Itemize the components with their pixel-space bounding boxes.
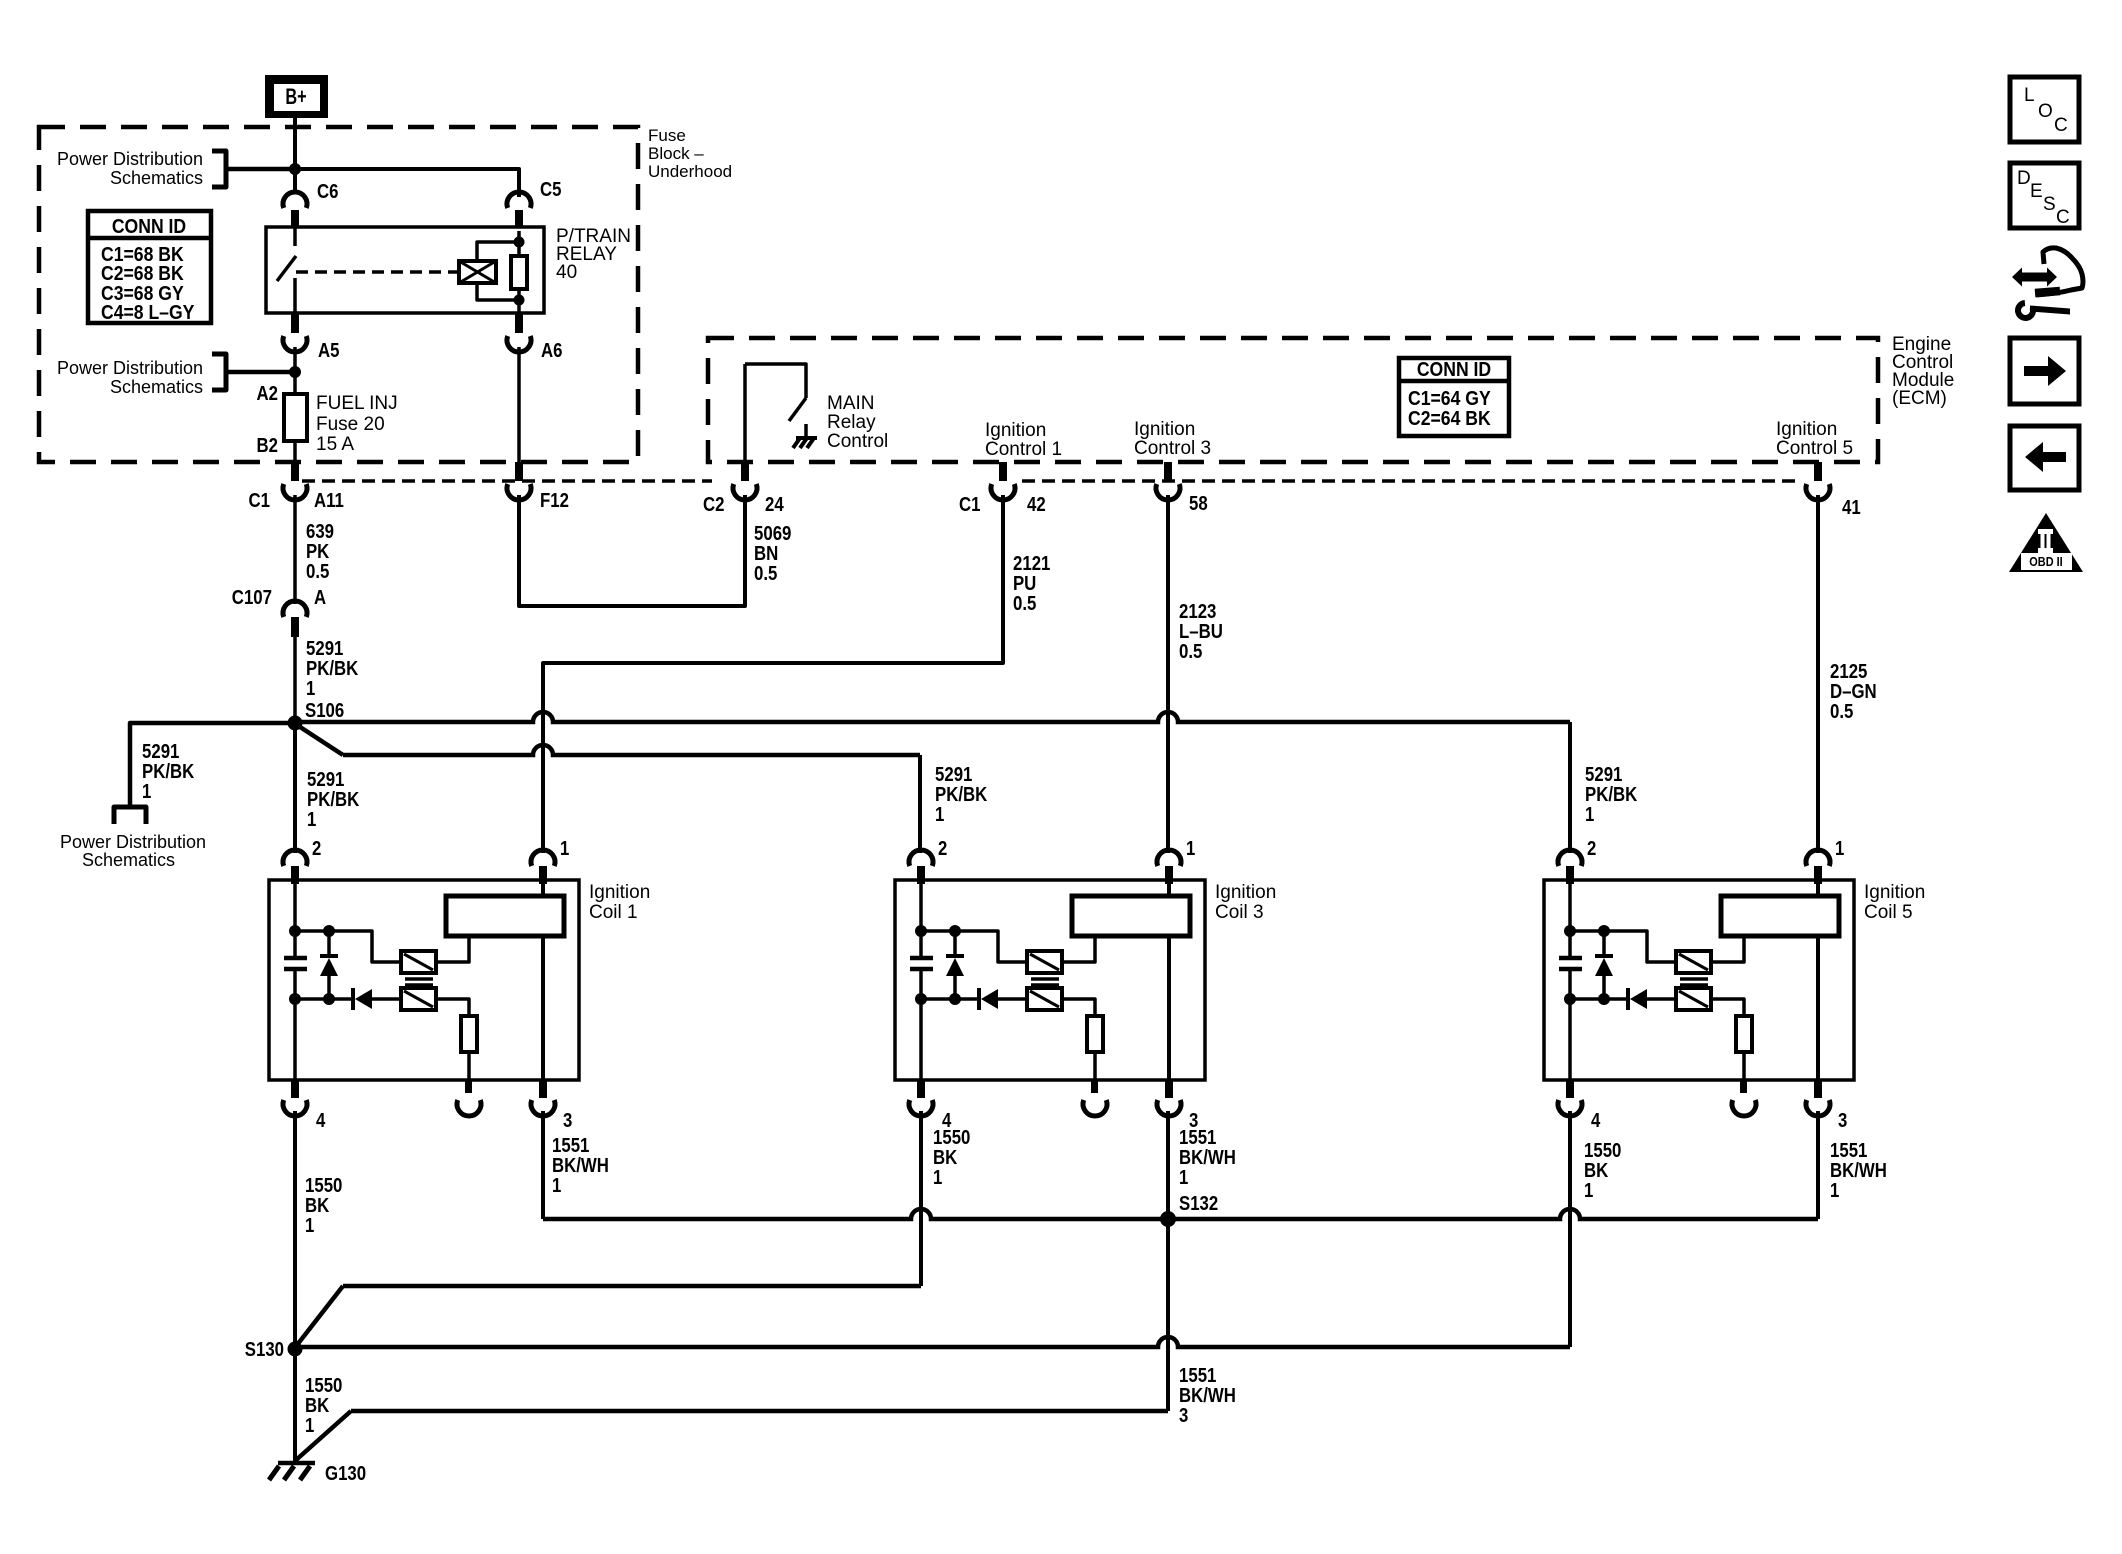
CONN ID table fuse block (88, 211, 211, 324)
wire S106 to coil1 pin2 (293, 730, 297, 853)
svg-text:1550: 1550 (933, 1127, 970, 1149)
svg-text:B+: B+ (285, 84, 306, 109)
coil 3 pin2 internal wire (919, 884, 923, 1080)
svg-text:B2: B2 (257, 435, 279, 457)
reference Power Distribution Schematics (top) (57, 149, 226, 188)
engine control module dashed box (708, 338, 1878, 462)
svg-text:BK: BK (933, 1147, 958, 1169)
svg-text:D: D (2017, 168, 2031, 189)
coil 3 pin 2 connector (909, 838, 947, 884)
svg-text:Coil 1: Coil 1 (589, 902, 638, 923)
label 5291 PK/BK 1 (coil5) (1585, 764, 1638, 826)
svg-text:C107: C107 (232, 587, 272, 609)
coil 3 resistor to secondary tower (1093, 1052, 1097, 1080)
svg-text:C2=64 BK: C2=64 BK (1408, 408, 1491, 430)
coil 5 secondary output connector (1732, 1080, 1756, 1116)
ignition coil 5 box (1544, 880, 1854, 1080)
reference bracket Power Distribution Schematics (bottom) (60, 807, 206, 870)
svg-text:2123: 2123 (1179, 601, 1216, 623)
CONN ID table ECM (1399, 358, 1509, 436)
svg-text:PU: PU (1013, 573, 1036, 595)
svg-text:0.5: 0.5 (1830, 701, 1853, 723)
label Ignition Control 1 (985, 420, 1062, 460)
svg-text:1550: 1550 (305, 1375, 342, 1397)
svg-text:PK: PK (306, 541, 330, 563)
fuse block underhood dashed box (39, 127, 638, 462)
svg-text:S106: S106 (305, 700, 344, 722)
icon wrench with hose (2012, 248, 2083, 318)
svg-text:C2: C2 (703, 494, 725, 516)
svg-text:3: 3 (563, 1110, 572, 1132)
label 5291 PK/BK 1 (coil3) (935, 764, 988, 826)
coil 1 resistor to secondary tower (467, 1052, 471, 1080)
svg-text:40: 40 (556, 262, 577, 283)
label Ignition Coil 5 (1864, 882, 1925, 923)
svg-text:15 A: 15 A (316, 434, 354, 455)
svg-text:C6: C6 (317, 181, 339, 203)
svg-text:D–GN: D–GN (1830, 681, 1877, 703)
connector C6 (283, 181, 339, 231)
svg-text:L: L (2024, 85, 2035, 106)
svg-text:Power Distribution: Power Distribution (60, 832, 206, 852)
svg-text:3: 3 (1179, 1405, 1188, 1427)
relay actuation dashed link (296, 270, 459, 274)
coil 3 winding to tower (1062, 938, 1095, 962)
coil 1 pin 1 connector (531, 838, 569, 884)
svg-text:5291: 5291 (935, 764, 972, 786)
power symbol B+ (265, 75, 328, 118)
coil 3 pin 1 connector (1157, 838, 1195, 884)
icon LOC (2010, 77, 2079, 142)
coil 1 diode (353, 988, 401, 1010)
svg-text:OBD II: OBD II (2029, 554, 2062, 569)
svg-text:1: 1 (935, 804, 944, 826)
svg-text:0.5: 0.5 (1179, 641, 1202, 663)
wire bracket to B+ junction (226, 167, 295, 172)
coil 5 tower rectangle (1721, 896, 1839, 936)
svg-text:C: C (2054, 115, 2068, 136)
svg-text:Ignition: Ignition (1134, 419, 1195, 440)
svg-text:5291: 5291 (307, 769, 344, 791)
svg-text:1: 1 (1585, 804, 1594, 826)
coil 3 pin1 internal wire (1167, 884, 1171, 1080)
svg-text:1551: 1551 (1179, 1127, 1216, 1149)
wire 2125 D-GN to coil5 pin1 (1816, 495, 1820, 853)
reference Power Distribution Schematics (fuse) (57, 354, 226, 397)
svg-text:1: 1 (1584, 1180, 1593, 1202)
label 1550 BK 1 (coil3) (933, 1127, 970, 1189)
coil 3 resistor (1087, 1016, 1103, 1052)
svg-text:Ignition: Ignition (1864, 882, 1925, 903)
connector pin 58 (1156, 462, 1208, 515)
label 1550 BK 1 (coil5) (1584, 1140, 1621, 1202)
svg-text:1: 1 (307, 809, 316, 831)
svg-text:Control 5: Control 5 (1776, 438, 1853, 459)
icon DESC (2010, 163, 2079, 228)
svg-text:5291: 5291 (306, 638, 343, 660)
coil 5 pin 1 connector (1806, 838, 1844, 884)
svg-text:A2: A2 (257, 383, 279, 405)
svg-text:1: 1 (306, 678, 315, 700)
svg-text:Ignition: Ignition (985, 420, 1046, 441)
coil 5 bottom rail (1570, 997, 1626, 1001)
coil 5 secondary winding (1676, 988, 1711, 1010)
label S132 (1179, 1193, 1218, 1215)
svg-text:Underhood: Underhood (648, 162, 732, 181)
coil 3 secondary output connector (1083, 1080, 1107, 1116)
wire 2123 L-BU to coil3 pin1 (1166, 495, 1170, 853)
svg-text:5291: 5291 (142, 741, 179, 763)
MAIN relay control switch (745, 364, 806, 462)
label 1551 BK/WH 1 (coil3) (1179, 1127, 1236, 1189)
label 1551 BK/WH 1 (coil1) (552, 1135, 609, 1197)
splice S130 (288, 1342, 303, 1357)
coil 5 pin2 internal wire (1568, 884, 1572, 1080)
svg-text:1: 1 (1186, 838, 1195, 860)
svg-text:Schematics: Schematics (110, 168, 203, 188)
svg-text:A6: A6 (541, 340, 563, 362)
coil 1 pin1 internal wire (541, 884, 545, 1080)
svg-text:Block –: Block – (648, 144, 704, 163)
svg-text:3: 3 (1838, 1110, 1847, 1132)
svg-text:BK/WH: BK/WH (1179, 1147, 1236, 1169)
icon OBD II triangle (2009, 513, 2083, 572)
svg-text:BK/WH: BK/WH (1179, 1385, 1236, 1407)
coil 5 pin 2 connector (1558, 838, 1596, 884)
coil 3 secondary winding (1027, 988, 1062, 1010)
coil 5 top rail (1570, 931, 1676, 962)
svg-text:CONN ID: CONN ID (1417, 359, 1491, 381)
svg-text:CONN ID: CONN ID (112, 216, 186, 238)
label 5291 PK/BK 1 (coil1) (307, 769, 360, 831)
coil 3 capacitor (910, 958, 933, 969)
wire 5291 C107 to S106 (293, 637, 297, 722)
svg-text:BK/WH: BK/WH (1830, 1160, 1887, 1182)
svg-text:G130: G130 (325, 1463, 366, 1485)
wire coil1 pin4 to S130 and G130 (293, 1111, 297, 1461)
svg-text:Coil 5: Coil 5 (1864, 902, 1913, 923)
relay wiring and junctions (477, 231, 525, 313)
svg-text:1: 1 (305, 1415, 314, 1437)
svg-text:Control: Control (827, 431, 888, 452)
connector F12 (507, 462, 569, 512)
wire S106 diagonal to coil3 pin2 (lower run) (297, 725, 920, 853)
relay coil symbol (459, 261, 496, 283)
label 2123 L-BU 0.5 (1179, 601, 1223, 663)
svg-text:A11: A11 (314, 490, 344, 512)
icon arrow right (2010, 338, 2079, 404)
label 2121 PU 0.5 (1013, 553, 1050, 615)
coil 5 core lines (1680, 979, 1708, 985)
svg-text:Ignition: Ignition (1776, 419, 1837, 440)
label 5291 PK/BK 1 (above S106) (306, 638, 359, 700)
svg-text:Power Distribution: Power Distribution (57, 149, 203, 169)
coil 5 zener diode (1595, 931, 1613, 999)
svg-text:58: 58 (1189, 493, 1208, 515)
relay resistor (511, 256, 527, 289)
coil 1 pin 3 connector (531, 1080, 572, 1132)
svg-text:Control 1: Control 1 (985, 439, 1062, 460)
svg-text:Coil 3: Coil 3 (1215, 902, 1264, 923)
svg-text:O: O (2038, 101, 2053, 122)
coil 1 resistor (461, 1016, 477, 1052)
wire S106 to coil5 pin2 (upper run) (295, 712, 1570, 853)
coil 3 top rail (921, 931, 1027, 962)
svg-text:41: 41 (1842, 497, 1861, 519)
coil 5 pin1 internal wire (1816, 884, 1820, 1080)
ground symbol in ECM (793, 424, 817, 448)
svg-text:Power Distribution: Power Distribution (57, 358, 203, 378)
relay switch contact (277, 227, 296, 313)
ignition coil 3 box (895, 880, 1205, 1080)
svg-text:PK/BK: PK/BK (307, 789, 360, 811)
svg-text:1551: 1551 (1830, 1140, 1867, 1162)
label Ignition Control 3 (1134, 419, 1211, 459)
svg-text:2125: 2125 (1830, 661, 1867, 683)
wire coil5 pin4 to S130 run (1568, 1111, 1572, 1347)
svg-text:2: 2 (938, 838, 947, 860)
harness dashed line left (302, 479, 712, 483)
coil 3 zener diode (946, 931, 964, 999)
svg-text:Ignition: Ignition (1215, 882, 1276, 903)
svg-text:Schematics: Schematics (110, 377, 203, 397)
wire S130 diagonal to coil3 pin4 run (297, 1286, 921, 1345)
svg-text:1551: 1551 (552, 1135, 589, 1157)
svg-text:Ignition: Ignition (589, 882, 650, 903)
connector C1 pin 42 (959, 462, 1046, 516)
label Engine Control Module (ECM) (1892, 334, 1954, 409)
ground G130 (269, 1463, 366, 1485)
svg-text:1: 1 (1179, 1167, 1188, 1189)
svg-text:1551: 1551 (1179, 1365, 1216, 1387)
svg-text:C1: C1 (249, 490, 271, 512)
coil 1 pin2 internal wire (293, 884, 297, 1080)
coil 5 primary winding (1676, 951, 1711, 973)
junction below B+ (289, 163, 301, 175)
svg-text:PK/BK: PK/BK (935, 784, 988, 806)
coil 5 winding to tower (1711, 938, 1744, 962)
svg-text:A: A (314, 587, 326, 609)
coil 3 diode (979, 988, 1027, 1010)
svg-text:0.5: 0.5 (306, 561, 329, 583)
coil 1 junction dots (289, 925, 335, 1005)
svg-text:24: 24 (765, 494, 784, 516)
svg-text:FUEL INJ: FUEL INJ (316, 393, 398, 414)
wire A6 to F12 (517, 347, 521, 462)
svg-text:0.5: 0.5 (754, 563, 777, 585)
svg-text:C2=68 BK: C2=68 BK (101, 263, 184, 285)
svg-text:PK/BK: PK/BK (142, 761, 195, 783)
label 639 PK 0.5 (306, 521, 334, 583)
svg-text:PK/BK: PK/BK (306, 658, 359, 680)
svg-text:(ECM): (ECM) (1892, 388, 1947, 409)
coil 3 pin 3 connector (1157, 1080, 1198, 1132)
label 1551 BK/WH 1 (coil5) (1830, 1140, 1887, 1202)
splice S106 (288, 716, 303, 731)
svg-text:F12: F12 (540, 490, 569, 512)
label P/TRAIN RELAY 40 (556, 226, 631, 283)
coil 5 pin 3 connector (1806, 1080, 1847, 1132)
connector A6 (507, 313, 563, 362)
coil 1 zener diode (320, 931, 338, 999)
svg-text:2: 2 (312, 838, 321, 860)
svg-text:C5: C5 (540, 179, 562, 201)
label Ignition Coil 1 (589, 882, 650, 923)
svg-text:S130: S130 (245, 1339, 284, 1361)
label S130 (245, 1339, 284, 1361)
svg-text:4: 4 (316, 1110, 326, 1132)
coil 1 bottom rail (295, 997, 351, 1001)
connector C107 A (232, 587, 326, 637)
label 5069 BN 0.5 (754, 523, 791, 585)
svg-text:2: 2 (1587, 838, 1596, 860)
wire junction to C5 (295, 169, 519, 197)
coil 3 junction dots (915, 925, 961, 1005)
label Ignition Coil 3 (1215, 882, 1276, 923)
svg-text:S132: S132 (1179, 1193, 1218, 1215)
svg-text:C1: C1 (959, 494, 981, 516)
svg-text:C: C (2056, 207, 2070, 228)
coil 5 resistor to secondary tower (1742, 1052, 1746, 1080)
connector C5 (507, 179, 562, 231)
coil 3 winding to resistor (1062, 999, 1095, 1016)
wire coil3 pin3 to S132 (1166, 1111, 1170, 1219)
label 1551 BK/WH 3 (1179, 1365, 1236, 1427)
icon arrow left (2010, 426, 2079, 490)
svg-text:BK: BK (305, 1395, 330, 1417)
wire B+ to junction (293, 118, 297, 193)
junction at fuse top (289, 366, 301, 378)
coil 5 winding to resistor (1711, 999, 1744, 1016)
coil 1 winding to resistor (436, 999, 469, 1016)
svg-text:0.5: 0.5 (1013, 593, 1036, 615)
svg-text:5291: 5291 (1585, 764, 1622, 786)
wire fuse to C1 A11 (293, 441, 297, 462)
relay P/TRAIN RELAY 40 box (266, 227, 544, 313)
svg-text:L–BU: L–BU (1179, 621, 1223, 643)
svg-text:1: 1 (560, 838, 569, 860)
svg-text:Fuse 20: Fuse 20 (316, 414, 385, 435)
coil 1 capacitor (284, 958, 307, 969)
wire S132 to coil5 pin3 (1168, 1111, 1818, 1219)
label Fuse Block - Underhood (648, 126, 732, 181)
svg-text:1: 1 (552, 1175, 561, 1197)
wire coil3 pin4 down (919, 1111, 923, 1286)
svg-text:1: 1 (305, 1215, 314, 1237)
svg-text:1550: 1550 (305, 1175, 342, 1197)
wire bracket to A5 node (226, 370, 295, 375)
coil 3 core lines (1031, 979, 1059, 985)
svg-text:BK: BK (1584, 1160, 1609, 1182)
svg-text:639: 639 (306, 521, 334, 543)
svg-text:PK/BK: PK/BK (1585, 784, 1638, 806)
svg-text:Schematics: Schematics (82, 850, 175, 870)
coil 1 pin 4 connector (283, 1080, 326, 1132)
svg-text:2121: 2121 (1013, 553, 1050, 575)
svg-text:1: 1 (933, 1167, 942, 1189)
label MAIN Relay Control (827, 393, 888, 452)
wire A5 to fuse (293, 347, 297, 394)
coil 3 tower rectangle (1072, 896, 1190, 936)
svg-text:BN: BN (754, 543, 778, 565)
coil 1 pin 2 connector (283, 838, 321, 884)
coil 1 secondary winding (401, 988, 436, 1010)
label Ignition Control 5 (1776, 419, 1853, 459)
svg-text:1: 1 (1835, 838, 1844, 860)
svg-text:1550: 1550 (1584, 1140, 1621, 1162)
label 5291 PK/BK 1 (left branch) (142, 741, 195, 803)
svg-text:BK/WH: BK/WH (552, 1155, 609, 1177)
svg-text:Relay: Relay (827, 412, 876, 433)
wire 1551 coil1 pin3 to S132 (543, 1111, 1168, 1219)
svg-text:1: 1 (142, 781, 151, 803)
coil 1 secondary output connector (457, 1080, 481, 1116)
svg-text:4: 4 (1591, 1110, 1601, 1132)
svg-text:MAIN: MAIN (827, 393, 875, 414)
wire S130 to coil5 pin4 horizontal (295, 1337, 1570, 1347)
svg-text:A5: A5 (318, 340, 340, 362)
svg-text:Fuse: Fuse (648, 126, 686, 145)
svg-text:42: 42 (1027, 494, 1046, 516)
coil 5 capacitor (1559, 958, 1582, 969)
wire 639 PK (293, 495, 297, 604)
coil 5 resistor (1736, 1016, 1752, 1052)
harness dashed line right (1022, 479, 1800, 483)
connector C2 pin 24 (703, 462, 784, 516)
wire 2121 PU to coil1 pin1 (543, 495, 1003, 853)
coil 1 winding to tower (436, 938, 469, 962)
svg-text:5069: 5069 (754, 523, 791, 545)
svg-text:S: S (2043, 194, 2056, 215)
label 2125 D-GN 0.5 (1830, 661, 1877, 723)
svg-text:Control 3: Control 3 (1134, 438, 1211, 459)
coil 1 primary winding (401, 951, 436, 973)
coil 1 core lines (405, 979, 433, 985)
splice S132 (1160, 1211, 1176, 1227)
coil 3 pin 4 connector (909, 1080, 952, 1132)
svg-text:C4=8 L–GY: C4=8 L–GY (101, 302, 195, 324)
svg-text:C1=64 GY: C1=64 GY (1408, 388, 1491, 410)
connector A5 (283, 313, 340, 362)
coil 1 top rail (295, 931, 401, 962)
label 1550 BK 1 (coil1) (305, 1175, 342, 1237)
svg-text:BK: BK (305, 1195, 330, 1217)
connector C1 A11 (249, 462, 344, 512)
coil 3 primary winding (1027, 951, 1062, 973)
coil 1 tower rectangle (446, 896, 564, 936)
fuse FUEL INJ Fuse 20 15A (257, 383, 398, 457)
wire S106 to left bracket (130, 723, 295, 807)
wire S132 down to ground run (296, 1219, 1168, 1460)
connector pin 41 (1806, 462, 1861, 519)
coil 5 junction dots (1564, 925, 1610, 1005)
label S106 (305, 700, 344, 722)
svg-text:E: E (2030, 181, 2043, 202)
label 1550 BK 1 (S130 to ground) (305, 1375, 342, 1437)
coil 5 pin 4 connector (1558, 1080, 1601, 1132)
svg-text:1: 1 (1830, 1180, 1839, 1202)
ignition coil 1 box (269, 880, 579, 1080)
coil 5 diode (1628, 988, 1676, 1010)
wire 5069 BN (519, 495, 745, 606)
coil 3 bottom rail (921, 997, 977, 1001)
